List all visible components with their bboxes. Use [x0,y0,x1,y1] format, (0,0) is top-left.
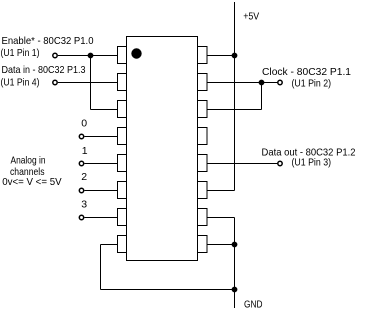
svg-text:(U1 Pin 1): (U1 Pin 1) [1,47,40,59]
svg-text:Enable* - 80C32 P1.0: Enable* - 80C32 P1.0 [2,35,94,47]
svg-text:GND: GND [244,298,263,310]
svg-text:3: 3 [81,198,87,210]
svg-text:1: 1 [82,145,88,157]
svg-text:Clock - 80C32 P1.1: Clock - 80C32 P1.1 [262,66,351,78]
svg-text:Analog in: Analog in [11,154,46,166]
svg-text:(U1 Pin 3): (U1 Pin 3) [292,157,332,169]
svg-text:Data in - 80C32 P1.3: Data in - 80C32 P1.3 [2,64,86,76]
svg-text:2: 2 [81,171,87,183]
svg-text:0v<= V <= 5V: 0v<= V <= 5V [2,176,61,188]
svg-text:0: 0 [81,118,87,130]
svg-text:(U1 Pin 2): (U1 Pin 2) [292,78,332,90]
svg-text:+5V: +5V [243,11,259,23]
svg-text:(U1 Pin 4): (U1 Pin 4) [1,77,40,89]
